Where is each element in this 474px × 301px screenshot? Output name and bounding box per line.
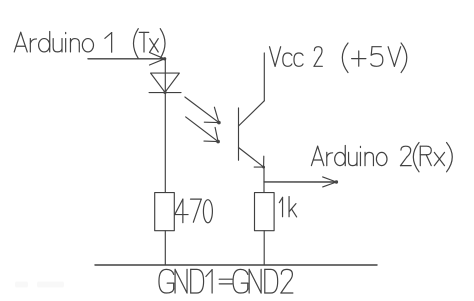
light arrow 2 <box>186 117 220 144</box>
net label GND1=GND2 <box>159 269 293 293</box>
label Vcc 2 (+5V) word (+5V) <box>342 43 406 73</box>
label Arduino 1 (Tx) word 1 <box>105 33 112 53</box>
wire R2 to ground <box>263 231 265 265</box>
label Arduino 2(Rx) word 2(Rx) <box>401 143 453 172</box>
label Arduino 1 (Tx) word (Tx) <box>133 29 165 59</box>
phototransistor Q1 collector <box>239 53 265 126</box>
resistor R2 1k <box>255 193 275 231</box>
faint watermark <box>15 282 64 288</box>
phototransistor Q1 emitter with arrow <box>239 148 266 169</box>
wire emitter vertical <box>263 167 265 193</box>
value 1k of resistor R2 <box>279 197 296 217</box>
label Arduino 1 (Tx) word Arduino <box>14 32 93 52</box>
wire Tx horizontal with arrow <box>88 53 166 66</box>
label Vcc 2 (+5V) word Vcc <box>270 47 304 67</box>
LED D1 <box>149 73 181 94</box>
wire R1 to ground <box>164 231 166 265</box>
wire Rx horizontal with arrow <box>264 177 338 187</box>
ground rail GND <box>95 264 377 266</box>
value 470 of resistor R1 <box>175 199 213 223</box>
label Arduino 2(Rx) word Arduino <box>311 145 387 165</box>
light arrow 1 <box>185 97 221 124</box>
label Vcc 2 (+5V) word 2 <box>314 47 322 67</box>
wire anode vertical <box>164 59 166 193</box>
phototransistor Q1 base bar <box>238 108 240 160</box>
resistor R1 470 <box>155 193 175 231</box>
